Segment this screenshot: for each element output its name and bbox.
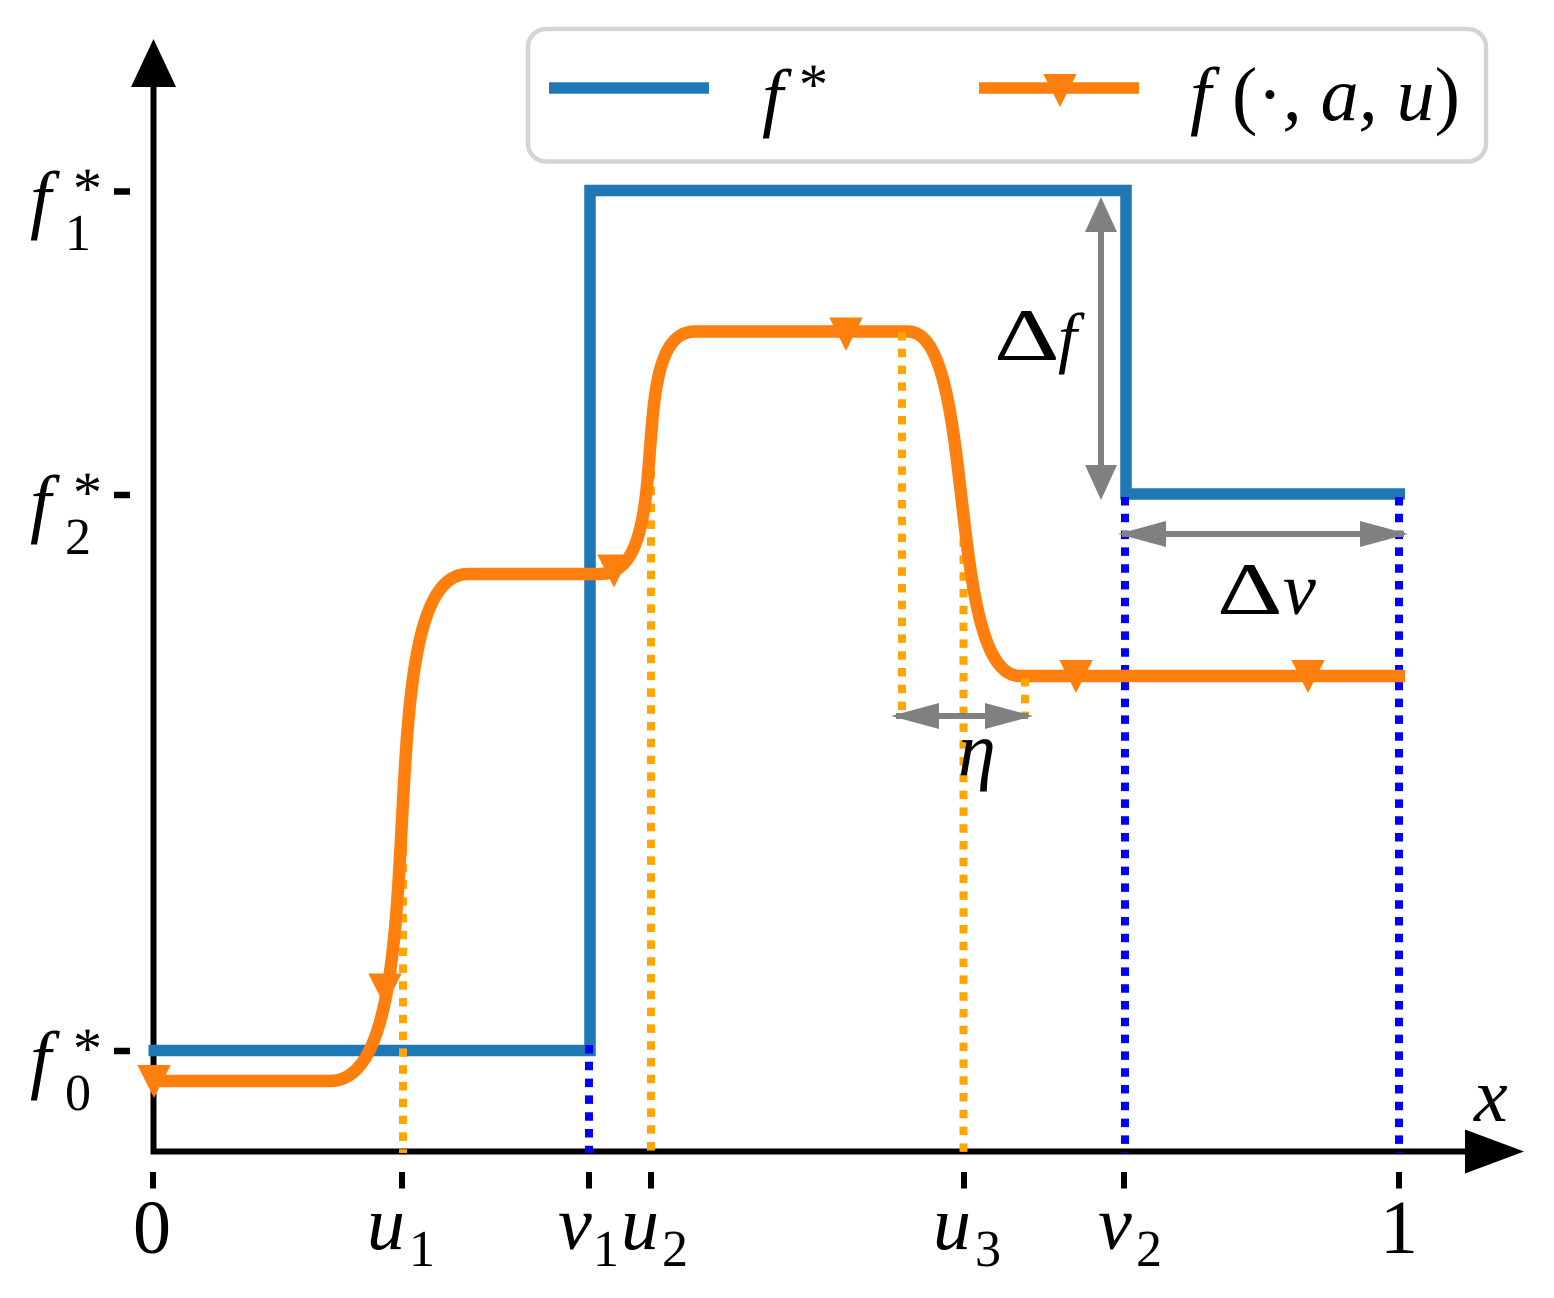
x label u1 (367, 1182, 435, 1278)
svg-text:0: 0 (65, 1065, 91, 1122)
x tick u1 (399, 1172, 405, 1189)
dotted blue guide v2 (1121, 497, 1129, 1153)
orange marker m6 (1291, 660, 1324, 693)
svg-text:2: 2 (65, 509, 91, 566)
svg-text:v: v (1098, 1182, 1132, 1266)
svg-text:*: * (799, 52, 828, 117)
svg-text:v: v (558, 1182, 592, 1266)
x axis (151, 1149, 1471, 1155)
x tick 0 (150, 1172, 156, 1189)
svg-text:3: 3 (975, 1221, 1001, 1278)
dotted orange guide u1 (399, 830, 407, 1153)
dotted orange guide eta-left (898, 332, 906, 716)
orange curve f(.,a,u) (149, 332, 1405, 1082)
svg-text:1: 1 (65, 205, 91, 262)
svg-text:v: v (1283, 549, 1316, 631)
dotted blue guide x=1 (1395, 497, 1403, 1153)
x tick v1 (586, 1172, 592, 1189)
svg-text:Δ: Δ (994, 295, 1060, 376)
gray eta double arrow (891, 703, 1033, 729)
svg-text:u: u (621, 1182, 659, 1266)
svg-text:u: u (367, 1182, 405, 1266)
svg-text:0: 0 (133, 1186, 171, 1270)
svg-text:Δ: Δ (1217, 549, 1283, 630)
dotted orange guide u3 (960, 505, 968, 1153)
dotted blue guide v1 (585, 1045, 593, 1153)
x tick 1 (1396, 1172, 1402, 1189)
dotted orange guide u2 (647, 470, 655, 1153)
y tick f0 (114, 1048, 130, 1055)
orange marker m5 (1059, 660, 1092, 693)
svg-text:2: 2 (1136, 1221, 1162, 1278)
x label u3 (933, 1182, 1001, 1278)
gray delta-f double arrow (1085, 197, 1117, 500)
gray delta-v double arrow (1118, 521, 1408, 547)
legend orange line with marker (979, 74, 1139, 107)
svg-text:(·, a, u): (·, a, u) (1232, 53, 1460, 137)
orange marker m1 (137, 1065, 170, 1098)
x tick v2 (1121, 1172, 1127, 1189)
svg-text:1: 1 (409, 1221, 435, 1278)
y axis arrowhead (131, 39, 176, 87)
svg-text:x: x (1473, 1054, 1508, 1138)
legend box (528, 29, 1486, 162)
annotation delta-v (1217, 549, 1316, 631)
y label f*0 (30, 1016, 102, 1122)
orange marker m3 (597, 555, 630, 588)
svg-text:1: 1 (593, 1221, 619, 1278)
svg-text:η: η (958, 708, 996, 792)
x tick u3 (961, 1172, 967, 1189)
y axis (151, 84, 157, 1155)
legend blue line (549, 82, 709, 94)
x label v2 (1098, 1182, 1162, 1278)
x tick u2 (648, 1172, 654, 1189)
legend label f* (762, 52, 828, 139)
x axis arrowhead (1465, 1130, 1524, 1174)
y label f*1 (30, 156, 102, 262)
svg-text:2: 2 (662, 1221, 688, 1278)
dotted orange guide eta-right (1021, 678, 1029, 716)
svg-text:u: u (933, 1182, 971, 1266)
y tick f1 (114, 188, 130, 195)
legend label f(.,a,u) (1190, 53, 1460, 137)
orange marker m4 (829, 318, 862, 352)
y label f*2 (30, 460, 102, 566)
annotation delta-f (994, 295, 1085, 376)
svg-text:1: 1 (1380, 1186, 1418, 1270)
orange marker m2 (368, 974, 401, 1007)
blue step function f* (149, 191, 1406, 1051)
x label v1u2 (558, 1182, 688, 1278)
y tick f2 (114, 492, 130, 499)
